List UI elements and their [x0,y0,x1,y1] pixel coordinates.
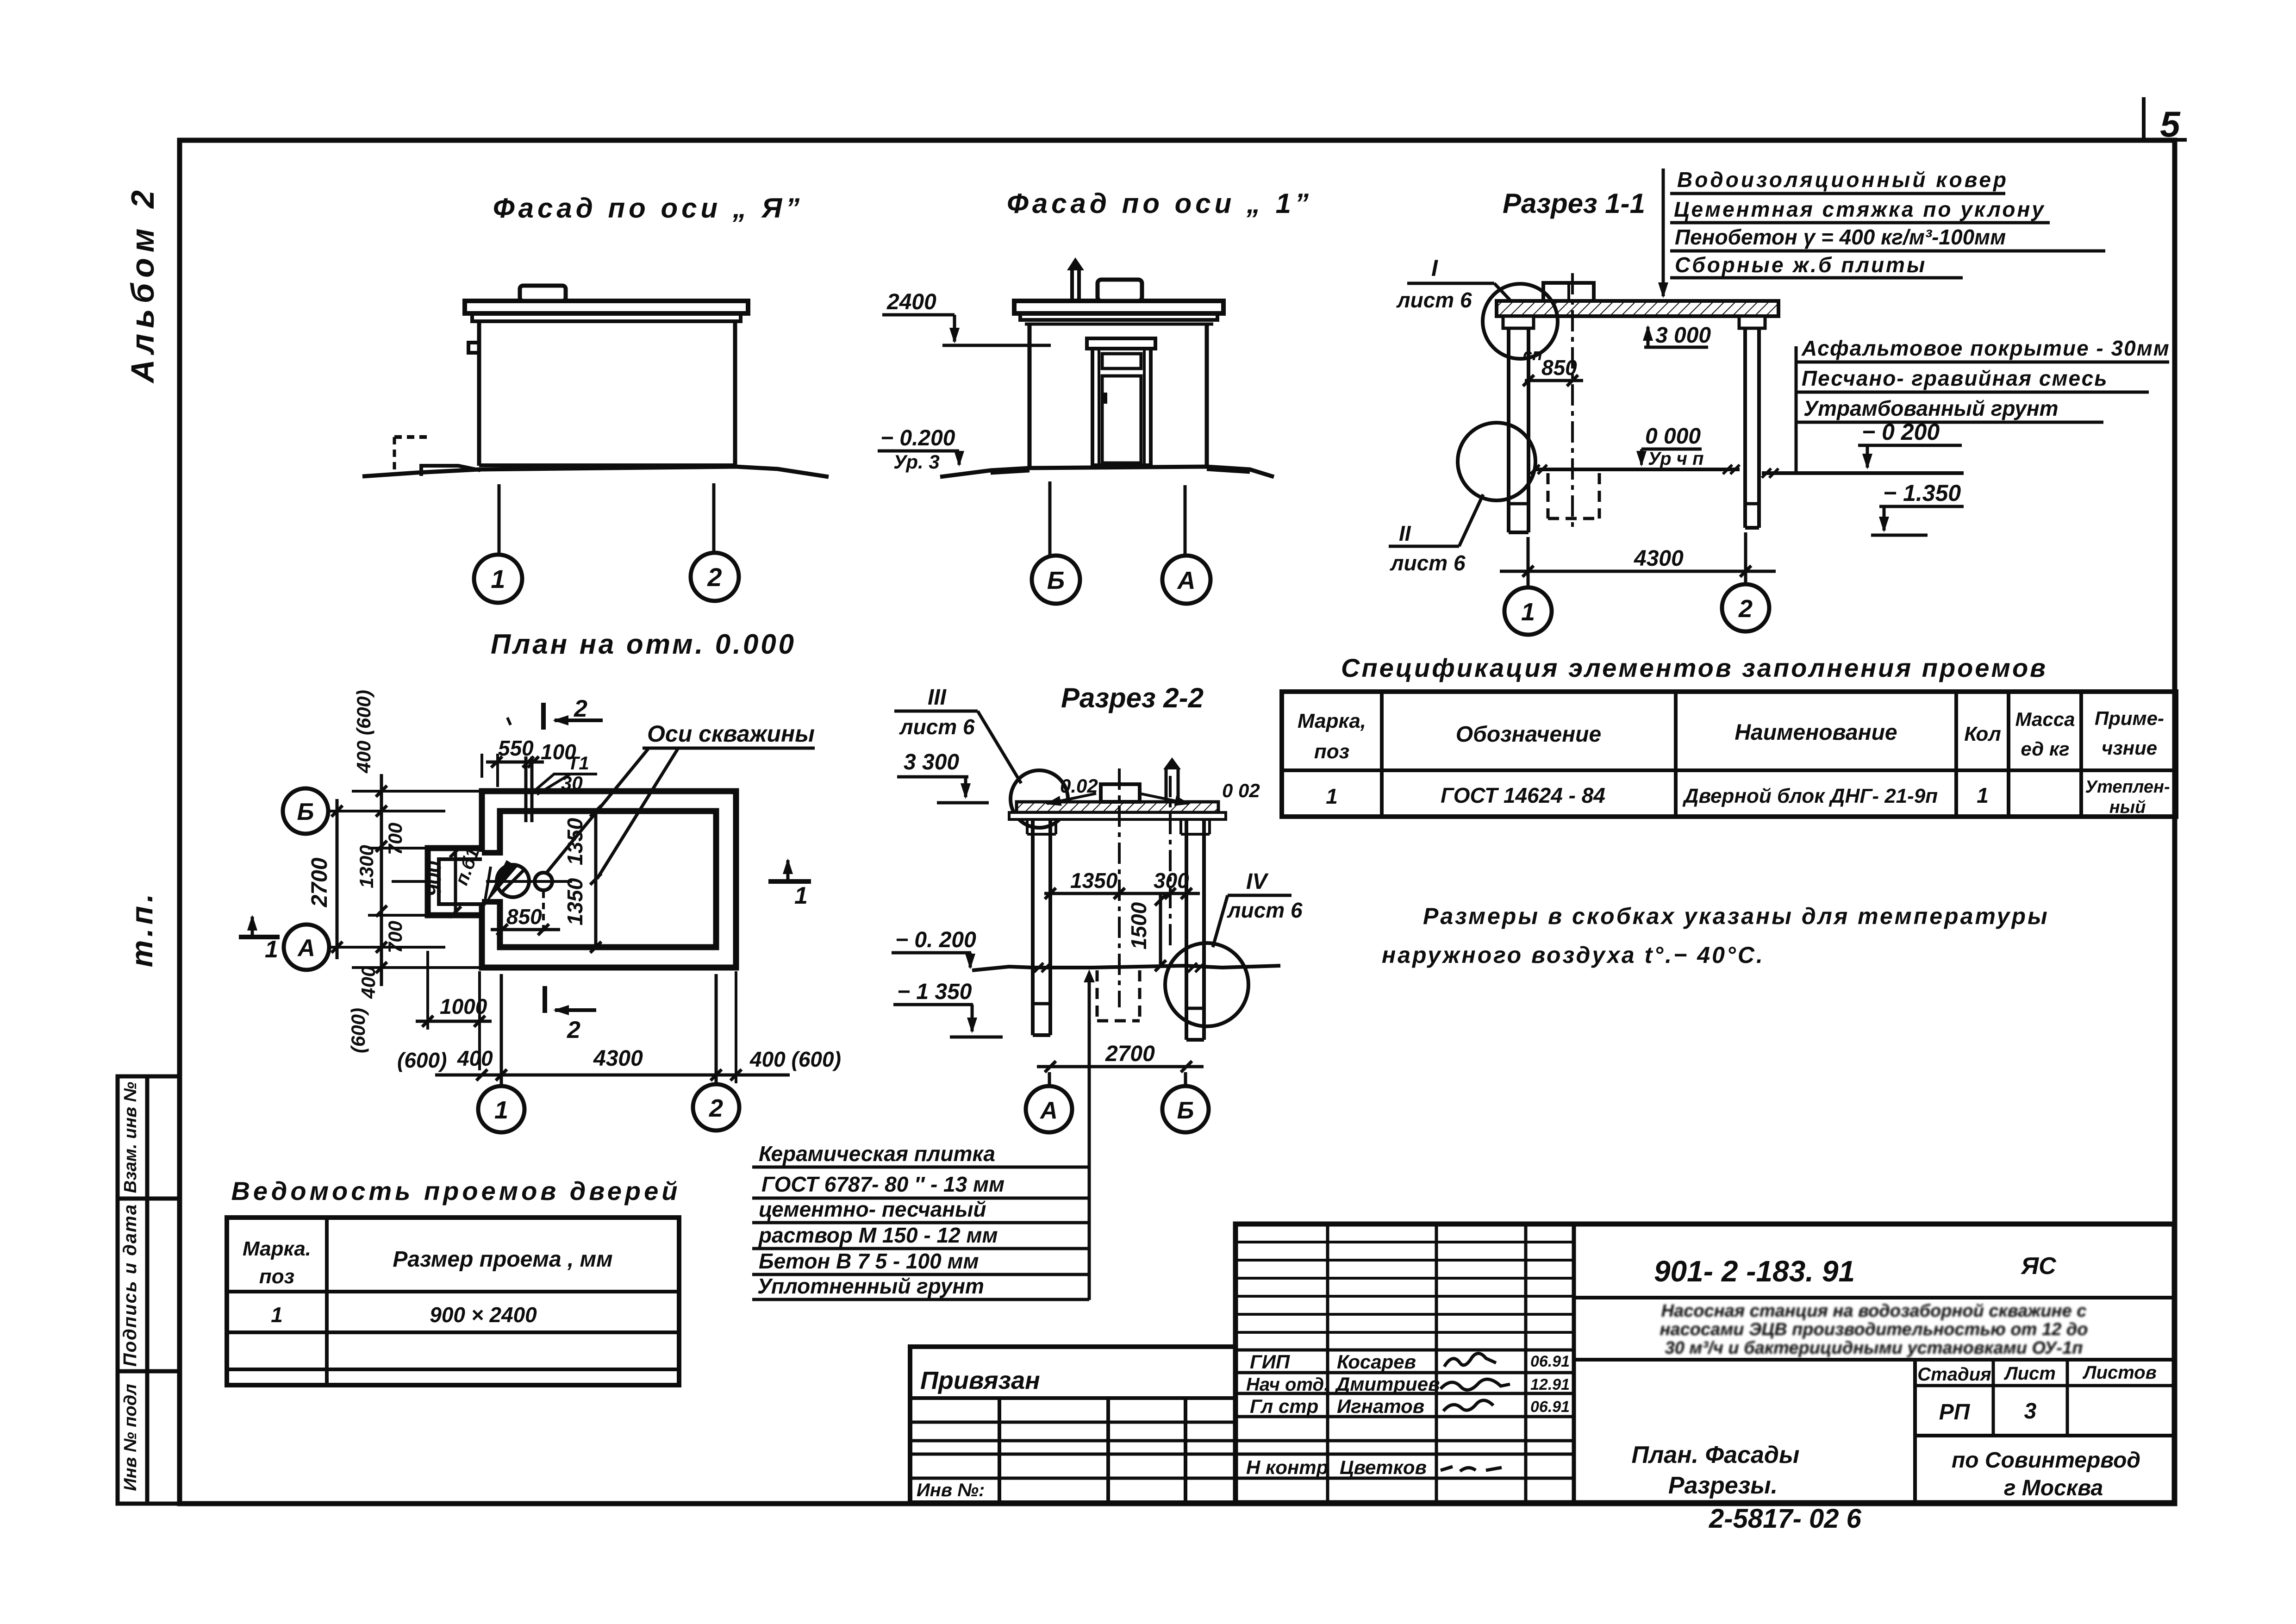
svg-text:3 300: 3 300 [904,750,959,775]
svg-text:Подпись и дата: Подпись и дата [120,1204,140,1367]
svg-text:1: 1 [1521,598,1535,626]
svg-text:1350: 1350 [563,878,587,925]
section 2-2 left wall [1031,818,1035,1035]
section 2-2 roof curb [1101,784,1140,802]
dim 4300 [1500,570,1776,573]
facade-1 door frame [1092,349,1151,465]
svg-text:Разрез 1-1: Разрез 1-1 [1503,188,1645,219]
plan axis 2 leader bottom [715,974,718,1083]
svg-text:Фасад по оси „ 1”: Фасад по оси „ 1” [1007,188,1312,219]
facade-1 axis А leader [1184,485,1187,555]
svg-text:А: А [1177,567,1196,594]
svg-text:Сборные ж.б плиты: Сборные ж.б плиты [1675,253,1927,277]
svg-text:3: 3 [2024,1399,2037,1424]
facade-Ya wall base line [479,463,735,467]
svg-text:Цветков: Цветков [1340,1456,1427,1478]
facade-Ya axis 1 leader [498,484,501,554]
svg-text:Разрез 2-2: Разрез 2-2 [1061,682,1204,713]
dim 850 [491,928,560,931]
ground layers leader [1795,346,1798,471]
svg-text:4300: 4300 [1634,546,1684,571]
svg-text:850: 850 [1541,356,1577,380]
svg-text:1: 1 [1977,783,1989,807]
facade-Ya left wall [477,321,481,466]
svg-text:поз: поз [259,1265,294,1288]
section 2-2 axis Б leader [1184,1072,1187,1086]
svg-text:Обозначение: Обозначение [1456,722,1601,747]
svg-text:400 (600): 400 (600) [749,1047,841,1071]
plan outer wall [482,791,736,968]
svg-text:700: 700 [384,823,406,855]
svg-text:Наименование: Наименование [1734,720,1897,745]
facade-1 apron slabs [991,471,1029,473]
svg-text:ГИП: ГИП [1250,1351,1290,1373]
section 2-2 axis lines [1118,768,1121,1007]
svg-text:А: А [1039,1097,1058,1124]
small tick [507,718,511,725]
drawing frame border [180,140,2175,1504]
plan axis circle Б [283,788,328,834]
svg-text:0 000: 0 000 [1645,424,1701,449]
svg-text:Цементная стяжка по уклону: Цементная стяжка по уклону [1674,197,2046,221]
section mark 1 left [239,935,280,939]
facade-Ya cornice [472,313,741,321]
dim 900 porch [454,852,457,912]
svg-text:Оси скважины: Оси скважины [647,721,815,747]
svg-text:850: 850 [506,905,542,929]
svg-text:1: 1 [265,936,278,963]
facade-1 left wall [1028,324,1032,467]
svg-text:901- 2 -183. 91: 901- 2 -183. 91 [1654,1255,1855,1288]
plan axis 1 leader bottom [500,974,503,1085]
facade-1 ground line [940,467,1274,477]
svg-text:цементно- песчаный: цементно- песчаный [759,1197,986,1221]
section 1-1 floor line [1534,468,1740,471]
svg-text:Лист: Лист [2003,1363,2056,1384]
svg-text:4300: 4300 [593,1046,643,1071]
dim 1350 300 [1044,892,1200,895]
plan axis circle 1 bottom [478,1086,524,1132]
facade-Ya ground line [362,467,829,477]
svg-text:Насосная станция на водозаб: Насосная станция на водозаборной скважин… [1661,1301,2087,1321]
svg-text:поз: поз [1314,740,1349,763]
section 1-1 right wall [1743,328,1747,528]
svg-text:1300: 1300 [356,845,377,888]
plan well circle [497,865,529,897]
svg-text:раствор М 150 - 12 мм: раствор М 150 - 12 мм [758,1223,998,1247]
svg-text:Пенобетон γ = 400 кг/м³-1: Пенобетон γ = 400 кг/м³-100мм [1675,225,2006,249]
svg-text:Бетон В 7 5 - 100 мм: Бетон В 7 5 - 100 мм [759,1249,979,1273]
facade-Ya axis circle 2 [691,553,739,601]
svg-text:Косарев: Косарев [1337,1351,1416,1373]
plan pipe T1 through wall [524,756,528,822]
svg-text:ГОСТ 14624 - 84: ГОСТ 14624 - 84 [1441,783,1605,807]
svg-text:400 (600): 400 (600) [353,690,374,774]
section 2-2 ground line [972,966,1280,970]
svg-text:Утрамбованный грунт: Утрамбованный грунт [1803,396,2059,420]
svg-text:1350: 1350 [563,818,587,865]
section 1-1 roof curb [1543,283,1594,301]
svg-text:400: 400 [457,1046,493,1070]
svg-text:Дверной блок ДНГ- 21-9п: Дверной блок ДНГ- 21-9п [1682,785,1938,807]
svg-text:2400: 2400 [886,290,936,314]
plan porch inner wall [439,859,482,904]
section 2-2 axis А leader [1048,1072,1051,1086]
svg-text:30 м³/ч и бактерицидными у: 30 м³/ч и бактерицидными установками ОУ-… [1665,1338,2083,1358]
svg-text:Уплотненный грунт: Уплотненный грунт [757,1274,984,1298]
svg-text:5: 5 [2160,104,2181,144]
section 1-1 axis circle 1 [1504,587,1552,635]
svg-text:Марка,: Марка, [1298,710,1366,732]
svg-text:Спецификация элементов запо: Спецификация элементов заполнения проемо… [1341,653,2047,682]
svg-text:Привязан: Привязан [920,1367,1040,1394]
svg-text:Б: Б [1177,1097,1194,1124]
svg-text:Ведомость проемов дверей: Ведомость проемов дверей [231,1176,680,1206]
svg-text:II: II [1399,521,1411,545]
facade-1 axis Б leader [1048,481,1052,555]
section 2-2 roof slab hatched [1017,802,1218,812]
dim chain 400 700 1300 700 400 vertical [380,774,383,986]
svg-text:Водоизоляционный ковер: Водоизоляционный ковер [1677,168,2009,192]
svg-text:А: А [297,935,315,962]
section 2-2 vent pipe [1165,769,1168,803]
plan axis circle А [284,924,329,970]
svg-text:1000: 1000 [440,994,487,1018]
facade-Ya roof hatch curb [520,286,566,301]
svg-text:(600): (600) [397,1048,447,1072]
svg-text:лист 6: лист 6 [1227,898,1303,922]
svg-text:2: 2 [574,695,587,722]
section 2-2 roof cornice strip [1009,812,1226,819]
dim chain 1350 1350 [594,811,598,947]
svg-text:2: 2 [707,562,722,592]
svg-text:Ур ч п: Ур ч п [1648,449,1704,469]
roof layers leader arrow [1662,169,1665,296]
spec table grid [1282,692,2176,817]
facade-1 vent pipe [1070,266,1074,301]
section 1-1 roof slab hatched [1497,301,1778,316]
svg-text:1: 1 [271,1303,283,1327]
svg-text:Инв № подл: Инв № подл [121,1384,140,1491]
plan well axis line [486,880,572,883]
title block Привязан box [910,1347,1235,1503]
svg-text:ЯС: ЯС [2020,1253,2057,1280]
facade-1 door transom window [1102,354,1141,369]
section 2-2 vent cap [1163,757,1181,769]
facade-1 cornice [1020,313,1217,320]
svg-text:06.91: 06.91 [1530,1353,1570,1370]
svg-text:2: 2 [567,1017,580,1043]
title block main outline [1235,1224,2174,1503]
dim 2700 vertical [336,799,339,959]
level 3 000 [1647,327,1650,346]
title block column lines [1328,1224,1574,1503]
svg-text:по Совинтервод: по Совинтервод [1952,1448,2140,1473]
svg-text:1500: 1500 [1127,902,1151,949]
detail circle III [1011,770,1068,828]
facade-Ya landing top [394,435,431,439]
svg-text:чзние: чзние [2102,737,2157,759]
svg-text:Ур. 3: Ур. 3 [893,451,940,473]
svg-text:лист 6: лист 6 [1390,551,1466,575]
section 1-1 pit dashed [1548,473,1599,518]
facade-Ya axis circle 1 [474,555,522,603]
svg-text:0 02: 0 02 [1222,780,1260,801]
svg-text:г Москва: г Москва [2004,1476,2103,1500]
svg-text:IV: IV [1246,869,1269,894]
svg-text:Кол: Кол [1964,723,2001,745]
svg-text:− 1.350: − 1.350 [1883,480,1961,506]
detail circle IV [1165,943,1248,1026]
svg-text:12.91: 12.91 [1530,1376,1570,1393]
floor note leader vertical [1088,975,1091,1300]
svg-text:Марка.: Марка. [243,1237,311,1260]
section mark 2 bottom [543,986,547,1013]
svg-text:Б: Б [297,799,314,825]
svg-text:Утеплен-: Утеплен- [2085,777,2170,797]
section mark 2 top [541,703,546,730]
svg-text:ГОСТ 6787- 80 ″ - 13 мм: ГОСТ 6787- 80 ″ - 13 мм [761,1172,1004,1196]
svg-text:ед кг: ед кг [2021,738,2069,760]
svg-text:400: 400 [357,966,379,999]
svg-text:30: 30 [561,772,583,794]
svg-text:550: 550 [498,736,534,760]
facade-Ya landing wall dashed [393,437,396,474]
section 1-1 left wall [1507,316,1510,532]
svg-text:Дмитриев: Дмитриев [1335,1373,1440,1395]
dim 850 [1525,379,1583,382]
facade-Ya right wall [733,321,737,467]
section 1-1 floor hatch ticks [1530,465,1740,474]
svg-text:900 × 2400: 900 × 2400 [430,1303,537,1327]
svg-text:Н контр: Н контр [1246,1456,1328,1478]
plan bottom dim line 400 4300 400 [435,1074,790,1077]
facade-1 door lintel [1087,338,1155,349]
svg-text:300: 300 [1154,868,1189,893]
section 1-1 axis circle 2 [1722,584,1769,631]
section 2-2 right wall [1185,818,1188,1040]
section 1-1 axis 1 leader [1527,537,1530,587]
section 2-2 axis circle А [1026,1086,1072,1132]
svg-text:Б: Б [1047,567,1065,594]
svg-text:1: 1 [494,1096,508,1124]
vedomost table grid [227,1218,679,1385]
stadia list listov box [1915,1360,2174,1503]
dim 1000 [426,951,429,1030]
project name blurred [1660,1301,2088,1358]
title block staff rows [1235,1350,1574,1478]
facade-Ya roof slab [465,301,748,313]
svg-text:Листов: Листов [2082,1362,2157,1383]
dim 2700 [1037,1065,1204,1068]
section 1-1 axis 2 leader [1744,532,1747,584]
svg-text:Фасад по оси „ Я”: Фасад по оси „ Я” [493,193,803,224]
section 1-1 outside ground right [1762,471,1964,475]
title block revision grid [1235,1242,1574,1332]
facade-1 right wall [1205,324,1209,467]
facade-1 axis circle А [1162,556,1210,604]
signatures [1444,1353,1496,1367]
svg-text:1: 1 [794,882,808,909]
facade-1 axis circle Б [1032,556,1080,604]
svg-text:− 0 200: − 0 200 [1862,419,1940,445]
svg-text:06.91: 06.91 [1530,1398,1570,1416]
svg-text:Альбом 2: Альбом 2 [125,185,161,384]
svg-text:насосами ЭЦВ производительно: насосами ЭЦВ производительностью от 12 д… [1660,1320,2088,1339]
svg-text:Стадия: Стадия [1917,1364,1991,1385]
svg-text:Приме-: Приме- [2095,707,2164,729]
svg-text:3 000: 3 000 [1655,323,1711,348]
svg-text:III: III [928,685,947,710]
svg-text:900: 900 [421,861,445,896]
svg-text:Асфальтовое покрытие - 30мм: Асфальтовое покрытие - 30мм [1801,336,2170,360]
facade-1 door leaf [1102,376,1141,463]
svg-text:Масса: Масса [2015,708,2075,730]
svg-text:700: 700 [384,921,406,953]
plan extension lines left [352,791,484,968]
svg-text:Инв №:: Инв №: [917,1480,985,1500]
svg-text:т.п.: т.п. [125,890,159,968]
svg-text:лист 6: лист 6 [1396,288,1472,312]
plan door swing [484,860,518,906]
svg-text:Песчано- гравийная смесь: Песчано- гравийная смесь [1802,366,2108,390]
plan inner wall [500,811,716,947]
svg-text:Разрезы.: Разрезы. [1668,1472,1778,1499]
svg-text:1: 1 [1326,784,1338,808]
section 2-2 pit dashed [1097,970,1140,1021]
plan top dim line 550 100 [486,761,544,764]
facade-1 roof slab [1014,301,1223,313]
svg-text:РП: РП [1939,1400,1971,1424]
detail circle II [1458,423,1535,500]
section 1-1 left wall cap [1503,316,1534,328]
svg-text:I: I [1431,255,1438,281]
detail circle I [1483,284,1558,359]
plan borehole circle [535,873,552,890]
svg-text:Гл стр: Гл стр [1250,1395,1318,1417]
svg-text:наружного воздуха t°.− 40°С: наружного воздуха t°.− 40°С. [1382,942,1765,968]
leaders to well axes [546,749,648,873]
svg-text:2700: 2700 [307,857,332,907]
svg-text:2: 2 [709,1094,723,1122]
svg-text:Нач отд.: Нач отд. [1246,1374,1329,1395]
section 1-1 well axis [1571,273,1574,531]
section 1-1 right wall cap [1739,316,1765,328]
svg-text:Игнатов: Игнатов [1337,1395,1424,1417]
section mark 1 right [768,879,811,884]
plan door jambs [482,850,500,856]
facade-Ya axis 2 leader [712,483,716,552]
svg-text:2700: 2700 [1105,1042,1155,1066]
left stamp column box [118,1076,180,1504]
svg-text:− 1 350: − 1 350 [897,980,972,1004]
svg-text:− 0. 200: − 0. 200 [895,928,976,952]
svg-text:лист 6: лист 6 [899,715,975,739]
svg-text:Т1: Т1 [568,753,589,774]
svg-text:План. Фасады: План. Фасады [1632,1442,1800,1468]
svg-text:Взам. инв №: Взам. инв № [121,1082,140,1193]
page number 5 tick [2129,97,2187,140]
section 2-2 axis circle Б [1162,1086,1209,1132]
svg-text:1: 1 [491,564,505,593]
facade-1 roof hatch curb [1098,280,1142,301]
dim 1500 vertical [1159,893,1162,967]
svg-text:2-5817- 02 6: 2-5817- 02 6 [1709,1504,1862,1534]
svg-text:План на отм. 0.000: План на отм. 0.000 [491,629,796,660]
facade-Ya wall pipe stub [468,343,479,353]
svg-text:2: 2 [1738,595,1753,623]
facade-1 vent pipe cap [1067,257,1084,270]
plan porch walls [428,848,482,915]
svg-text:(600): (600) [347,1008,369,1053]
svg-text:Размер проема , мм: Размер проема , мм [393,1247,612,1272]
svg-text:Размеры в скобках указаны: Размеры в скобках указаны для температур… [1423,903,2049,929]
svg-text:− 0.200: − 0.200 [880,426,955,450]
svg-text:ный: ный [2109,798,2146,817]
plan axis circle 2 bottom [693,1084,739,1131]
svg-text:1350: 1350 [1070,868,1118,893]
svg-text:Керамическая плитка: Керамическая плитка [759,1142,995,1166]
facade-1 door handle [1104,393,1107,404]
facade-Ya entry step [421,466,480,476]
